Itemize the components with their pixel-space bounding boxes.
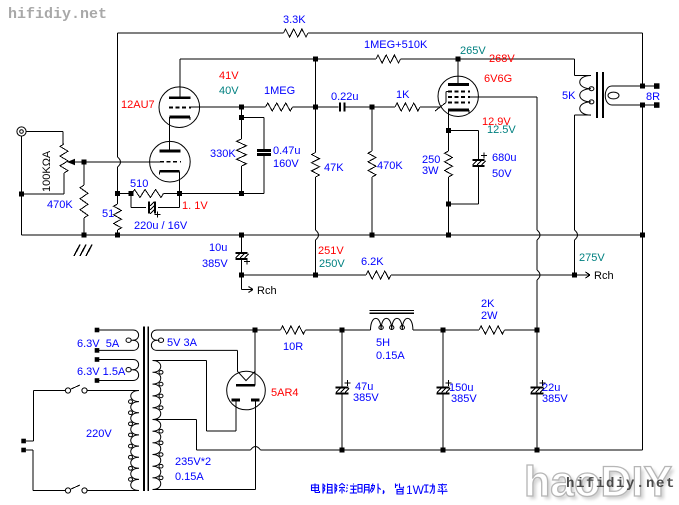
svg-text:510: 510 <box>130 178 148 190</box>
svg-text:10R: 10R <box>283 341 303 353</box>
svg-text:Rch: Rch <box>257 285 277 297</box>
svg-text:5H: 5H <box>376 337 390 349</box>
svg-text:2W: 2W <box>481 310 498 322</box>
svg-text:12.5V: 12.5V <box>487 124 516 136</box>
svg-text:12AU7: 12AU7 <box>121 99 155 111</box>
svg-text:0.15A: 0.15A <box>376 350 405 362</box>
svg-text:220V: 220V <box>86 428 112 440</box>
svg-text:6.2K: 6.2K <box>361 256 384 268</box>
svg-text:275V: 275V <box>579 252 605 264</box>
svg-text:1K: 1K <box>396 89 410 101</box>
svg-text:160V: 160V <box>273 158 299 170</box>
svg-text:47K: 47K <box>324 162 344 174</box>
svg-text:5V 3A: 5V 3A <box>167 337 198 349</box>
svg-text:385V: 385V <box>542 393 568 405</box>
svg-text:1. 1V: 1. 1V <box>182 200 208 212</box>
svg-text:220u / 16V: 220u / 16V <box>134 220 188 232</box>
svg-text:6V6G: 6V6G <box>484 73 512 85</box>
svg-text:268V: 268V <box>489 53 515 65</box>
svg-text:250V: 250V <box>319 258 345 270</box>
svg-text:41V: 41V <box>219 70 239 82</box>
svg-text:6.3V 1.5A: 6.3V 1.5A <box>77 366 126 378</box>
svg-text:0.22u: 0.22u <box>331 91 359 103</box>
svg-text:1MEG+510K: 1MEG+510K <box>364 39 428 51</box>
svg-text:Rch: Rch <box>594 270 614 282</box>
svg-text:680u: 680u <box>492 152 516 164</box>
svg-text:6.3V 5A: 6.3V 5A <box>77 338 120 350</box>
svg-text:50V: 50V <box>492 168 512 180</box>
svg-text:10u: 10u <box>209 242 227 254</box>
svg-text:251V: 251V <box>318 245 344 257</box>
svg-text:1W: 1W <box>406 483 425 497</box>
svg-text:5K: 5K <box>562 90 576 102</box>
svg-text:0.47u: 0.47u <box>273 145 301 157</box>
svg-text:235V*2: 235V*2 <box>175 456 211 468</box>
svg-text:2K: 2K <box>481 298 495 310</box>
svg-text:5AR4: 5AR4 <box>271 387 299 399</box>
svg-text:385V: 385V <box>451 393 477 405</box>
svg-text:1MEG: 1MEG <box>264 85 295 97</box>
svg-text:8R: 8R <box>646 91 660 103</box>
svg-text:0.15A: 0.15A <box>175 471 204 483</box>
svg-text:385V: 385V <box>202 258 228 270</box>
svg-text:40V: 40V <box>219 85 239 97</box>
svg-text:100KΩA: 100KΩA <box>41 150 53 192</box>
svg-text:265V: 265V <box>460 45 486 57</box>
svg-text:470K: 470K <box>47 199 73 211</box>
svg-text:330K: 330K <box>210 148 236 160</box>
svg-text:385V: 385V <box>353 392 379 404</box>
svg-text:470K: 470K <box>377 160 403 172</box>
svg-text:51: 51 <box>102 208 114 220</box>
svg-text:3W: 3W <box>422 165 439 177</box>
svg-text:3.3K: 3.3K <box>283 14 306 26</box>
